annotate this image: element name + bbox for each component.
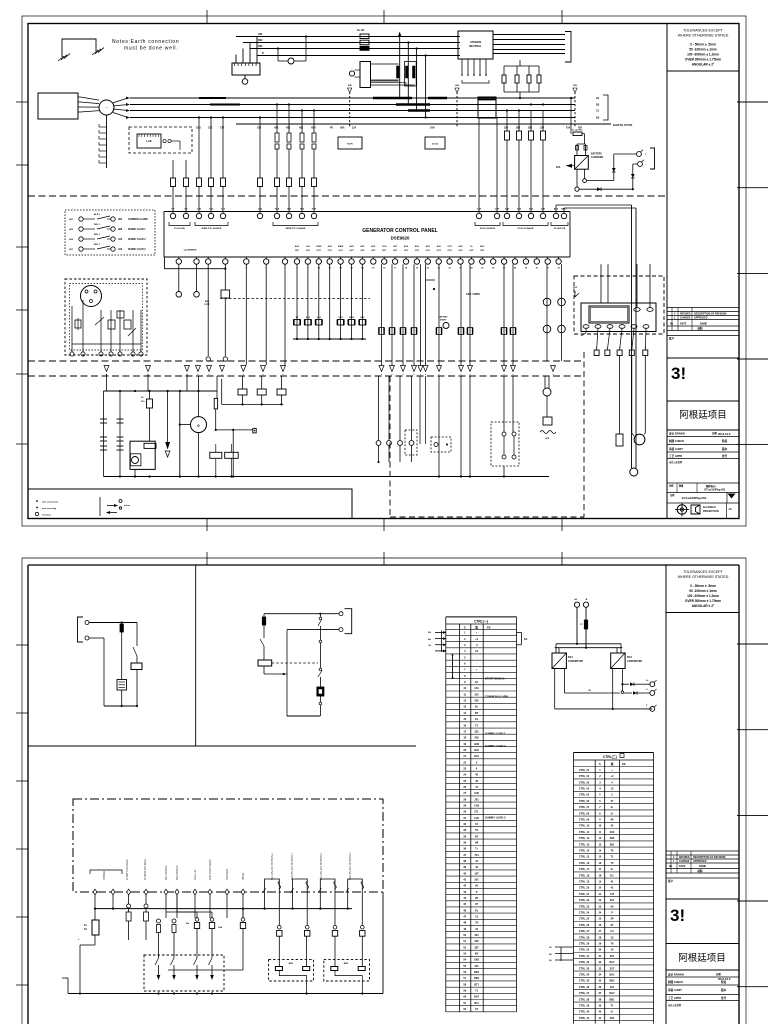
circuit B contact chain: [319, 614, 321, 617]
row2 wire drops: [207, 264, 209, 356]
svg-text:工艺 APPR: 工艺 APPR: [668, 996, 681, 1000]
svg-text:CTRL(一): CTRL(一): [474, 619, 488, 623]
svg-text:CTRL_30: CTRL_30: [579, 949, 590, 952]
solenoid A: [117, 680, 127, 691]
svg-text:Fu: Fu: [475, 718, 479, 721]
svg-text:BB1: BB1: [609, 998, 615, 1001]
svg-text:LA SENDER: LA SENDER: [184, 249, 197, 252]
charger output wires: [576, 169, 578, 187]
svg-text:100 -300mm ± 1.2mm: 100 -300mm ± 1.2mm: [687, 594, 719, 598]
svg-text:d: d: [645, 347, 646, 349]
sheet1 projection symbol: [677, 505, 687, 515]
svg-text:GTLw103Pkg-001: GTLw103Pkg-001: [704, 488, 726, 492]
svg-text:PLUG FLANGE: PLUG FLANGE: [518, 227, 534, 230]
svg-text:wire connected: wire connected: [42, 501, 59, 504]
svg-text:4A: 4A: [428, 638, 431, 641]
svg-text:RB1: RB1: [474, 977, 480, 980]
svg-text:in/out: in/out: [124, 504, 130, 507]
svg-text:302: 302: [475, 940, 480, 943]
svg-text:张号: 张号: [722, 454, 728, 458]
svg-text:工艺 APPR: 工艺 APPR: [669, 454, 682, 458]
svg-text:NEUTRAL: NEUTRAL: [469, 44, 482, 48]
svg-text:AUX: AUX: [458, 245, 463, 248]
svg-text:SB2: SB2: [474, 959, 479, 962]
sheet2 border ticks: [16, 644, 28, 646]
starter motor box: [130, 441, 155, 469]
sheet1 title block column: [666, 24, 668, 519]
svg-text:CTRL_25: CTRL_25: [579, 918, 590, 921]
svg-text:d: d: [607, 347, 608, 349]
svg-text:CHANGE: CHANGE: [680, 317, 691, 320]
row2 terminals: [176, 259, 181, 264]
svg-text:D+: D+: [475, 706, 479, 709]
svg-text:ANGULAR ± 2°: ANGULAR ± 2°: [692, 604, 715, 608]
link dashed: [272, 662, 318, 664]
CT block: [478, 97, 496, 118]
svg-text:制图 CHECK: 制图 CHECK: [668, 980, 683, 984]
right bracket: [565, 32, 571, 63]
sheet2 logo box: [666, 898, 739, 900]
charge alternator: [179, 391, 181, 477]
svg-text:SUMMY LOAD 1: SUMMY LOAD 1: [128, 228, 146, 231]
sense wire up-arrow: [399, 34, 401, 98]
svg-text:LTN: LTN: [545, 438, 550, 440]
svg-text:202: 202: [475, 700, 480, 703]
svg-text:PWM: PWM: [316, 246, 321, 248]
svg-text:D1 D2: D1 D2: [432, 144, 439, 146]
row1 terminals: [170, 213, 175, 218]
svg-text:PANEL: PANEL: [242, 872, 245, 880]
svg-text:Fu ab H27: Fu ab H27: [572, 130, 583, 132]
svg-text:材料: 材料: [696, 869, 703, 873]
eng stop dashed jumper: [220, 298, 370, 300]
sheet2 inner border: [28, 564, 739, 566]
svg-text:GENERATOR CONTROL PANEL: GENERATOR CONTROL PANEL: [362, 228, 437, 234]
svg-text:日期: 日期: [712, 431, 717, 435]
relay circuit A bracket: [78, 617, 84, 642]
svg-text:PROJECTION: PROJECTION: [703, 510, 719, 513]
svg-text:C6H: C6H: [477, 209, 482, 211]
svg-text:CTRL_18: CTRL_18: [579, 874, 590, 877]
svg-text:B11: B11: [474, 1002, 479, 1005]
svg-text:CHANGE: CHANGE: [679, 860, 690, 863]
svg-text:C30: C30: [208, 128, 213, 130]
wire drop 3: [416, 49, 418, 111]
svg-text:CTRL_39: CTRL_39: [579, 1005, 590, 1008]
section divider horizontal: [28, 745, 416, 747]
svg-text:START: START: [440, 319, 447, 322]
relay circuit A wiring: [89, 622, 137, 624]
LCD: [589, 306, 629, 323]
svg-text:201: 201: [475, 879, 480, 882]
pilot lamp: [277, 49, 279, 62]
svg-text:BC2: BC2: [627, 656, 632, 659]
bus junction dots: [198, 116, 200, 118]
svg-text:BB1: BB1: [609, 980, 615, 983]
svg-text:terminal: terminal: [42, 514, 51, 517]
svg-text:D13: D13: [610, 831, 615, 834]
relay coil A: [131, 663, 142, 670]
svg-text:4A: 4A: [610, 819, 613, 822]
module body: [581, 303, 656, 332]
svg-text:100 -300mm ± 1.2mm: 100 -300mm ± 1.2mm: [687, 53, 719, 57]
table CTRL1 right link 6A: [517, 631, 522, 633]
svg-text:CTRL_36: CTRL_36: [579, 986, 590, 989]
actuator stair wires: [371, 79, 399, 81]
svg-text:PLUG S/B: PLUG S/B: [174, 228, 185, 230]
sheet2 title block column: [665, 565, 667, 1024]
svg-text:ANGULAR ± 2°: ANGULAR ± 2°: [692, 63, 715, 67]
svg-text:BT1: BT1: [474, 983, 479, 986]
svg-text:10A: 10A: [218, 926, 222, 929]
svg-text:CTRL_01: CTRL_01: [579, 769, 590, 772]
svg-text:H3A: H3A: [340, 127, 345, 130]
svg-text:24 BATT VOLTAGE: 24 BATT VOLTAGE: [144, 859, 147, 880]
svg-text:AUX: AUX: [371, 245, 376, 248]
dashed box small 1: [405, 430, 417, 455]
bus heavy segments: [373, 97, 412, 99]
svg-text:B62: B62: [258, 39, 263, 42]
svg-text:d: d: [619, 347, 620, 349]
BCD terminals: [650, 682, 655, 687]
svg-text:22H: 22H: [540, 128, 545, 130]
main bus lines: [130, 97, 575, 99]
svg-text:CTRL_38: CTRL_38: [579, 998, 590, 1001]
sheet1 inner border: [28, 24, 739, 519]
svg-text:BR1 ON-OFF BUTTON 2: BR1 ON-OFF BUTTON 2: [320, 852, 323, 880]
svg-text:ATS/GEN: ATS/GEN: [470, 40, 481, 44]
dashed box small 2: [431, 437, 451, 452]
svg-text:CTRL_03: CTRL_03: [579, 781, 590, 784]
svg-text:Fu 101: Fu 101: [357, 29, 365, 32]
terminal table CTRL2: [574, 752, 654, 754]
svg-text:22B: 22B: [505, 209, 509, 211]
svg-text:BR2: BR2: [344, 963, 349, 965]
display module dashed box: [574, 276, 664, 334]
svg-text:STOP: STOP: [204, 304, 210, 306]
svg-text:No: No: [669, 865, 673, 868]
cluster top rail: [104, 390, 218, 392]
svg-text:CTRL_07: CTRL_07: [579, 806, 590, 809]
svg-text:3!: 3!: [670, 906, 685, 925]
fuses right group: [506, 111, 508, 132]
svg-text:CTRL_26: CTRL_26: [579, 924, 590, 927]
svg-text:DRL 1: DRL 1: [94, 224, 101, 226]
svg-text:START SIGNAL: START SIGNAL: [485, 677, 505, 681]
svg-text:H62: H62: [258, 33, 263, 36]
sheet1 outer border: [22, 16, 746, 526]
svg-text:EARTH STUD: EARTH STUD: [613, 123, 633, 127]
engine box terminals: [70, 352, 74, 356]
crimp connectors row: [378, 376, 380, 440]
svg-text:DATE: DATE: [679, 865, 686, 868]
svg-text:OVER 300mm ± 1.75mm: OVER 300mm ± 1.75mm: [685, 599, 721, 603]
svg-text:CTRL_35: CTRL_35: [579, 980, 590, 983]
IO wire drops: [94, 894, 96, 920]
top feeder lines: [236, 36, 460, 38]
svg-text:S: S: [599, 762, 601, 766]
svg-text:H32: H32: [299, 128, 304, 130]
svg-text:BA1: BA1: [609, 974, 615, 977]
BR relay box 1: [269, 960, 314, 981]
contact blocks mid: [379, 328, 384, 335]
svg-text:2B2: 2B2: [528, 128, 533, 130]
svg-text:阶段: 阶段: [722, 439, 728, 443]
svg-text:图样标记: 图样标记: [706, 484, 716, 488]
svg-text:GTLw103Pkg.001: GTLw103Pkg.001: [682, 496, 707, 500]
sensor fuses row: [157, 919, 161, 923]
panel input wires upper: [172, 160, 174, 178]
lower-left wires: [103, 391, 105, 477]
fuel valve resistor: [149, 391, 151, 399]
svg-text:AUX: AUX: [426, 245, 431, 248]
starter signal circle: [630, 468, 638, 476]
svg-text:+B: +B: [574, 599, 577, 601]
svg-text:301: 301: [475, 965, 480, 968]
relay contact cluster left: [296, 264, 298, 339]
svg-text:201: 201: [475, 798, 480, 801]
bus fan arrows: [113, 98, 128, 103]
wire step: [426, 279, 435, 281]
svg-text:337: 337: [475, 946, 480, 949]
svg-text:POWER: POWER: [103, 871, 106, 880]
svg-text:D2H: D2H: [339, 317, 344, 319]
svg-text:ENG: ENG: [205, 301, 210, 303]
svg-text:版本: 版本: [722, 447, 728, 451]
svg-text:C1: C1: [596, 109, 600, 113]
svg-text:C6H: C6H: [430, 128, 435, 130]
hub circle: [99, 100, 114, 115]
svg-text:CTRL_37: CTRL_37: [579, 992, 590, 995]
svg-text:H30: H30: [286, 128, 291, 130]
svg-text:IN BATT VOLTAGE: IN BATT VOLTAGE: [126, 859, 129, 880]
svg-text:3rd ANGLE: 3rd ANGLE: [703, 506, 716, 509]
svg-text:CTRL_24: CTRL_24: [579, 912, 590, 915]
svg-text:审核 AUDIT: 审核 AUDIT: [669, 447, 683, 451]
svg-text:B11: B11: [610, 1017, 615, 1020]
svg-text:制图 CHECK: 制图 CHECK: [669, 439, 684, 443]
ATS output lines to bracket: [493, 34, 565, 36]
svg-text:CTRL_05: CTRL_05: [579, 794, 590, 797]
svg-text:CTRL_28: CTRL_28: [579, 936, 590, 939]
svg-text:审核 AUDIT: 审核 AUDIT: [668, 988, 682, 992]
svg-text:REVISED: REVISED: [679, 856, 690, 859]
table CTRL1 left stubs: [440, 631, 442, 653]
svg-text:1A: 1A: [428, 644, 431, 647]
svg-text:D62: D62: [258, 45, 263, 48]
hub wires: [81, 97, 100, 100]
svg-text:LAE: LAE: [146, 139, 151, 143]
svg-text:301: 301: [610, 955, 615, 958]
svg-text:H12: H12: [118, 249, 123, 251]
svg-text:BA7: BA7: [609, 961, 615, 964]
governor actuator block: [360, 62, 371, 88]
svg-text:2B3: 2B3: [516, 128, 521, 130]
svg-text:-: -: [476, 675, 477, 678]
svg-text:WHERE OTHERWISE STATED: WHERE OTHERWISE STATED: [678, 575, 729, 579]
svg-text:CTRL_40: CTRL_40: [579, 1011, 590, 1014]
svg-text:CTRL_31: CTRL_31: [579, 955, 590, 958]
svg-text:阿根廷项目: 阿根廷项目: [679, 409, 727, 421]
battery charger feed: [570, 98, 572, 134]
svg-text:CTRL_29: CTRL_29: [579, 943, 590, 946]
svg-text:BV: BV: [475, 953, 479, 956]
svg-text:B2: B2: [596, 116, 600, 120]
svg-text:H3A: H3A: [275, 208, 280, 211]
svg-text:DATE: DATE: [680, 323, 687, 326]
svg-text:SUMMY LOAD 3: SUMMY LOAD 3: [128, 248, 146, 251]
left fuse FU: [92, 920, 99, 935]
svg-text:CTRL_11: CTRL_11: [579, 831, 590, 834]
svg-text:BR1: BR1: [289, 963, 294, 965]
svg-text:SUMMY LOAD 2: SUMMY LOAD 2: [485, 744, 506, 748]
svg-text:201: 201: [475, 693, 480, 696]
svg-text:BR2 ON-OFF BUTTON 1: BR2 ON-OFF BUTTON 1: [291, 852, 294, 880]
sheet1 border ticks: [16, 101, 28, 103]
connector block X1: [232, 63, 260, 75]
svg-text:CTRL_02: CTRL_02: [579, 775, 590, 778]
svg-text:must be done well.: must be done well.: [124, 46, 178, 52]
svg-text:AUX: AUX: [328, 245, 333, 248]
svg-text:201: 201: [475, 730, 480, 733]
BCD converter feeds: [574, 602, 579, 607]
svg-text:301: 301: [610, 986, 615, 989]
svg-text:S/B: S/B: [348, 85, 352, 87]
svg-text:CONVERTER: CONVERTER: [568, 660, 583, 663]
svg-text:wire crossing: wire crossing: [42, 508, 57, 510]
svg-text:C7L: C7L: [474, 811, 479, 814]
svg-text:WIRE PTL FLANGE: WIRE PTL FLANGE: [285, 227, 306, 230]
svg-text:材料: 材料: [696, 327, 703, 331]
svg-text:FUEL LVL: FUEL LVL: [194, 869, 197, 880]
coolant heater: [544, 376, 546, 388]
svg-text:设计 DRAWN: 设计 DRAWN: [668, 973, 684, 977]
panel edge L-wire: [163, 257, 165, 269]
svg-text:SUMMY LOAD 3: SUMMY LOAD 3: [485, 816, 506, 820]
ground symbol: [62, 39, 96, 57]
svg-text:CTRL_10: CTRL_10: [579, 825, 590, 828]
sheet1 title rows: [667, 436, 739, 438]
svg-text:CTRL_33: CTRL_33: [579, 967, 590, 970]
svg-text:3!: 3!: [671, 364, 686, 383]
svg-text:337: 337: [610, 967, 615, 970]
module top wires: [600, 276, 602, 303]
LA sender wires: [178, 264, 180, 291]
svg-text:CHG: CHG: [382, 246, 387, 248]
svg-text:5A: 5A: [186, 922, 189, 925]
sensor squares row: [195, 918, 199, 922]
svg-text:CTRL_34: CTRL_34: [579, 974, 590, 977]
svg-text:CH3: CH3: [474, 804, 480, 807]
svg-text:BC1: BC1: [568, 656, 573, 659]
svg-text:CTRL_12: CTRL_12: [579, 837, 590, 840]
svg-text:NAME: NAME: [699, 865, 706, 868]
svg-text:S/B: S/B: [455, 85, 459, 87]
temp heater contacts: [210, 452, 222, 458]
svg-text:CTRL_13: CTRL_13: [579, 843, 590, 846]
svg-text:H3H: H3H: [311, 128, 316, 130]
fuse pairs under bus: [275, 133, 279, 142]
relay coils K1 K2 K3: [242, 376, 244, 389]
panel wire: [242, 929, 244, 971]
magnetic pickup circle: [81, 286, 102, 307]
wire drop 2: [407, 43, 409, 105]
BCD converter rails: [556, 643, 621, 645]
wire drop 4: [425, 56, 427, 118]
svg-text:DRL 1: DRL 1: [94, 234, 101, 236]
speed ctrl dashed box: [129, 127, 192, 153]
svg-text:CTRL_09: CTRL_09: [579, 819, 590, 822]
engine box internals: [71, 310, 73, 352]
sheet2 revision table: [666, 850, 739, 852]
svg-text:H08: H08: [474, 743, 479, 746]
engine harness block: [38, 93, 78, 119]
svg-text:客户: 客户: [667, 879, 674, 883]
bottom rail sheet2: [68, 993, 383, 995]
svg-text:TOLERANCES EXCEPT: TOLERANCES EXCEPT: [683, 570, 723, 574]
load resistors: [503, 66, 505, 75]
svg-text:张号: 张号: [721, 996, 727, 1000]
svg-text:AUX: AUX: [480, 245, 485, 248]
svg-text:PREHEAT: PREHEAT: [226, 868, 229, 880]
svg-text:-: -: [476, 656, 477, 659]
svg-text:阶段: 阶段: [721, 980, 727, 984]
svg-text:d: d: [596, 347, 597, 349]
svg-text:ALR 1: ALR 1: [94, 213, 101, 216]
right dashed boundary: [583, 352, 585, 517]
svg-text:CH3: CH3: [197, 209, 202, 211]
svg-text:5A: 5A: [84, 928, 87, 931]
svg-text:客户: 客户: [668, 337, 675, 341]
svg-text:SUP: SUP: [360, 246, 365, 248]
svg-text:COMMON ALARM: COMMON ALARM: [485, 695, 509, 699]
svg-text:CTRL_23: CTRL_23: [579, 905, 590, 908]
battery charger: [575, 156, 589, 170]
row1 group brackets: [169, 222, 190, 226]
svg-text:147: 147: [475, 872, 480, 875]
svg-text:COMMON ALARM: COMMON ALARM: [128, 218, 148, 221]
down arrows: [167, 391, 169, 442]
svg-text:BR2 ON-OFF BUTTON 2: BR2 ON-OFF BUTTON 2: [349, 852, 352, 880]
svg-text:MAIN: MAIN: [338, 245, 344, 248]
battery cells: [100, 418, 107, 420]
svg-text:H3A: H3A: [274, 127, 279, 130]
section divider vertical: [195, 565, 197, 746]
svg-text:CTRL_08: CTRL_08: [579, 812, 590, 815]
svg-text:DESCRIPTION OF REVISION: DESCRIPTION OF REVISION: [694, 313, 727, 316]
svg-text:D01: D01: [610, 843, 615, 846]
svg-text:版本: 版本: [721, 988, 727, 992]
svg-text:147: 147: [610, 893, 615, 896]
bottom rail right dots: [460, 475, 462, 477]
ATS pins down: [461, 59, 463, 75]
svg-text:22A: 22A: [556, 166, 561, 169]
svg-text:2014.12.2: 2014.12.2: [718, 432, 731, 436]
svg-text:TOLERANCES EXCEPT: TOLERANCES EXCEPT: [683, 29, 723, 33]
plug symbols row: [104, 366, 109, 372]
svg-text:CTRL_17: CTRL_17: [579, 868, 590, 871]
svg-text:S/B: S/B: [573, 85, 577, 87]
table CTRL1 col1 link: [452, 655, 454, 678]
ctrl dashed box switches: [144, 955, 224, 991]
oil pressure sender: [215, 397, 217, 399]
svg-text:AUX: AUX: [437, 245, 442, 248]
svg-text:SUMMY LOAD 2: SUMMY LOAD 2: [128, 238, 146, 241]
ATS gen neutral block: [458, 31, 493, 59]
svg-text:FB: FB: [622, 762, 626, 766]
svg-text:REVISED: REVISED: [680, 313, 691, 316]
bat wires to right: [555, 205, 557, 212]
